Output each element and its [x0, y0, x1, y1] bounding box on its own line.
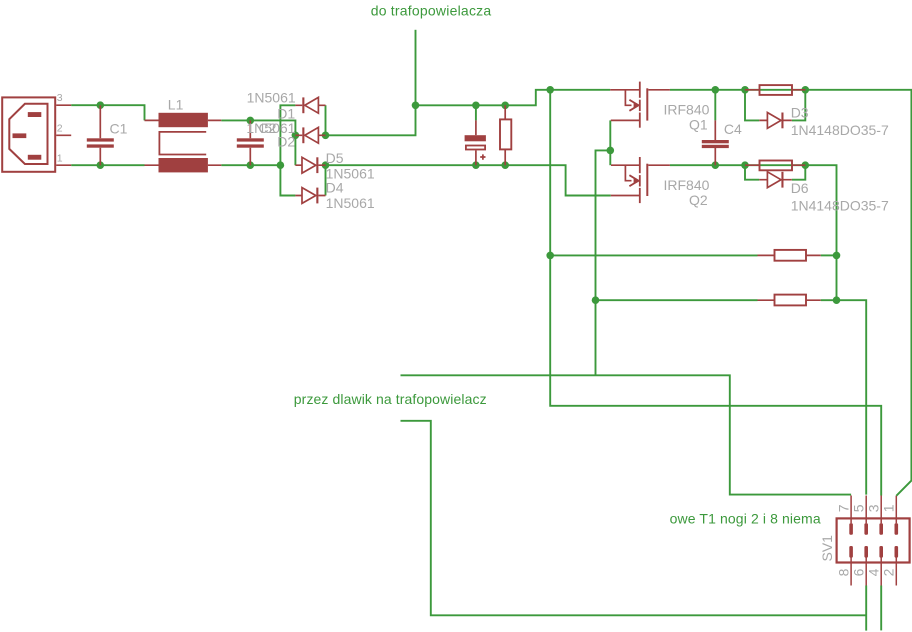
svg-text:Q1: Q1 — [689, 116, 708, 132]
wire net AC2 from L1 bottom to bridge — [221, 164, 280, 166]
diode D4 — [295, 188, 325, 204]
wire R3 right to vertical — [821, 254, 837, 256]
diode D3 — [759, 113, 792, 129]
wire Q1 gate net to right edge and pin 1 diagonal — [670, 90, 912, 496]
svg-text:2: 2 — [57, 122, 63, 134]
resistor R1 — [745, 85, 805, 95]
svg-text:IRF840: IRF840 — [664, 102, 710, 118]
wire net AC pin1 rail — [71, 164, 144, 166]
svg-text:D6: D6 — [791, 180, 809, 196]
svg-text:IRF840: IRF840 — [664, 177, 710, 193]
wire stub do trafopowielacza — [415, 30, 417, 106]
svg-text:Q2: Q2 — [689, 192, 708, 208]
diode D5 — [295, 157, 325, 173]
wire net AC pin3 rail — [71, 105, 144, 120]
wire midpoint to R4 left — [596, 150, 611, 375]
wire lower stub to SV1 pin 6 — [401, 421, 867, 616]
wire D3 left stub — [745, 90, 759, 121]
capacitor C4 — [702, 120, 729, 165]
svg-text:owe T1 nogi 2 i 8 niema: owe T1 nogi 2 i 8 niema — [670, 511, 821, 527]
svg-text:6: 6 — [851, 568, 867, 576]
wire DC plus rail to Q2 source — [326, 165, 611, 195]
wire R3 left lead net — [550, 254, 757, 256]
wire D3 right stub — [792, 90, 806, 121]
svg-text:do trafopowielacza: do trafopowielacza — [371, 2, 492, 18]
wire midpoint Q1 source to Q2 drain — [609, 120, 611, 165]
wire D1 cathode to D4 anode vertical — [280, 105, 295, 195]
wire C4 top stub — [714, 90, 716, 121]
transistor Q2 IRF840 — [611, 157, 670, 203]
transistor Q1 IRF840 — [610, 82, 670, 128]
svg-text:7: 7 — [836, 504, 852, 512]
electrolytic capacitor C3 — [465, 120, 486, 165]
wire R4 left lead net — [596, 299, 758, 301]
diode D6 — [759, 172, 792, 188]
resistor R4 — [758, 295, 821, 306]
svg-text:C2: C2 — [259, 120, 277, 136]
wire D4 cathode to D5 cathode — [325, 165, 327, 195]
svg-text:SV1: SV1 — [819, 535, 835, 562]
svg-text:5: 5 — [851, 504, 867, 512]
svg-text:1N4148DO35-7: 1N4148DO35-7 — [791, 122, 889, 138]
diode D1 — [295, 97, 325, 113]
wire D6 left stub — [745, 165, 759, 180]
wire stub przez dlawik to SV1 pin 7 — [401, 375, 852, 494]
svg-text:1: 1 — [57, 152, 63, 164]
resistor R2 — [745, 161, 805, 171]
wire R4 right to SV1 pin 5 — [821, 300, 867, 494]
connector X1 IEC inlet — [2, 97, 71, 171]
svg-text:1: 1 — [881, 504, 897, 512]
svg-text:D4: D4 — [326, 179, 344, 195]
resistor R5 vertical — [500, 105, 511, 165]
capacitor C2 — [237, 120, 264, 165]
svg-text:3: 3 — [57, 92, 63, 104]
svg-text:3: 3 — [866, 504, 882, 512]
wire C3 top stub — [475, 105, 477, 120]
svg-text:przez dlawik na trafopowielacz: przez dlawik na trafopowielacz — [294, 391, 487, 407]
capacitor C1 — [87, 105, 114, 165]
wire net AC1 from L1 top to bridge — [221, 120, 295, 165]
inductor L1 common mode choke — [145, 113, 222, 173]
svg-text:L1: L1 — [168, 97, 184, 113]
svg-text:4: 4 — [866, 568, 882, 576]
svg-text:D2: D2 — [277, 133, 295, 149]
wire top bus to Q1 drain — [416, 90, 611, 106]
connector SV1 — [837, 496, 910, 586]
wire bus junction down through R3 left to SV1 pin 3 — [550, 90, 881, 496]
svg-text:1N4148DO35-7: 1N4148DO35-7 — [791, 197, 889, 213]
svg-text:1N5061: 1N5061 — [326, 195, 375, 211]
wire SV1 pin 4 down — [880, 586, 882, 631]
wire Q2 gate net — [670, 165, 837, 300]
wire D6 right stub — [792, 165, 806, 180]
svg-text:2: 2 — [881, 568, 897, 576]
svg-text:1N5061: 1N5061 — [247, 90, 296, 106]
svg-text:D5: D5 — [326, 150, 344, 166]
wire DC minus bus D1/D2 anodes to top bus — [326, 105, 416, 135]
resistor R3 — [758, 250, 821, 261]
svg-text:D3: D3 — [791, 105, 809, 121]
wire SV1 pin 6 down — [865, 586, 867, 631]
diode D2 — [295, 127, 325, 143]
svg-text:8: 8 — [836, 568, 852, 576]
svg-text:C1: C1 — [110, 121, 128, 137]
svg-text:C4: C4 — [724, 121, 742, 137]
